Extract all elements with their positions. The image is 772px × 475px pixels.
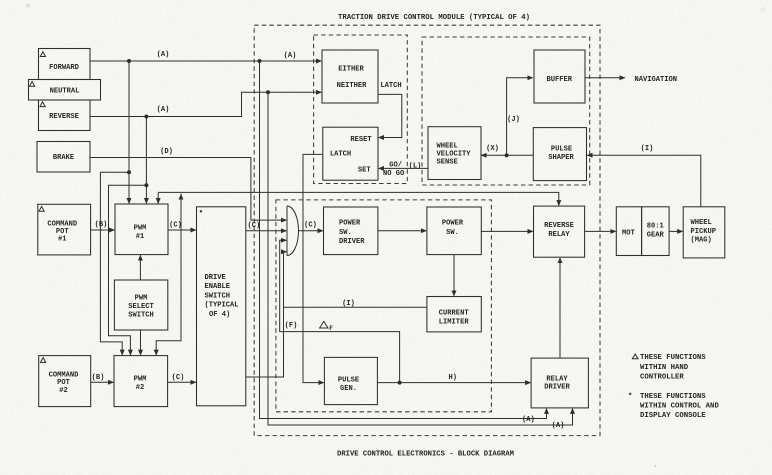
- node reverse bus tap: [144, 115, 148, 119]
- wire PULSE SHAPER (X) to WVS: [481, 145, 533, 155]
- label delta F: [320, 321, 334, 332]
- box 80:1 GEAR: [642, 207, 670, 256]
- dashed box latch section: [314, 35, 408, 184]
- svg-text:(A): (A): [552, 422, 565, 430]
- svg-text:PWM: PWM: [134, 225, 147, 233]
- svg-text:OF 4): OF 4): [209, 311, 230, 319]
- svg-text:SW.: SW.: [339, 229, 352, 237]
- module outer dashed border: [254, 25, 600, 435]
- box PULSE GEN: [324, 357, 377, 404]
- wire REVERSE (A) to NEITHER: [90, 92, 321, 116]
- svg-text:#2: #2: [136, 384, 145, 392]
- node X junction: [505, 153, 509, 157]
- dashed box power section: [276, 200, 492, 412]
- box LATCH (RESET/SET): [323, 127, 378, 180]
- svg-text:NAVIGATION: NAVIGATION: [635, 76, 678, 84]
- wire PWM1 (C) to DRIVE ENABLE: [168, 222, 196, 231]
- box WHEEL VELOCITY SENSE: [428, 127, 481, 180]
- node forward-pwm2 tap: [127, 170, 131, 174]
- wire BRAKE (D) to or-gate: [90, 148, 286, 220]
- wire POWER SW down to CURRENT LIMITER: [453, 255, 455, 296]
- box DRIVE ENABLE SWITCH: [197, 207, 246, 406]
- svg-text:RELAY: RELAY: [548, 231, 570, 239]
- svg-text:FORWARD: FORWARD: [49, 64, 79, 72]
- wire latch net branch to PWM2: [156, 194, 181, 355]
- svg-text:LIMITER: LIMITER: [439, 318, 470, 326]
- wire PULSE GEN (H) to RELAY DRIVER: [377, 374, 530, 382]
- svg-text:PWM: PWM: [134, 376, 147, 384]
- svg-text:POWER: POWER: [442, 220, 464, 228]
- svg-text:(J): (J): [507, 116, 520, 124]
- box NEUTRAL: [29, 80, 101, 101]
- svg-text:(I): (I): [641, 145, 654, 153]
- svg-text:WHEEL: WHEEL: [691, 219, 712, 227]
- svg-text:(C): (C): [172, 374, 185, 382]
- or-gate merge symbol: [287, 206, 299, 256]
- svg-text:SELECT: SELECT: [128, 303, 154, 311]
- svg-text:#1: #1: [136, 233, 145, 241]
- svg-text:DRIVE: DRIVE: [205, 274, 226, 282]
- node reverse A-bus tap: [266, 90, 270, 94]
- wire PWM2 (C) to DRIVE ENABLE: [168, 374, 196, 383]
- svg-text:GO/: GO/: [389, 162, 402, 170]
- svg-text:NEUTRAL: NEUTRAL: [50, 88, 80, 96]
- node reverse-pwm2 tap: [144, 183, 148, 187]
- svg-text:(X): (X): [486, 145, 499, 153]
- svg-text:BRAKE: BRAKE: [53, 154, 74, 162]
- svg-text:THESE FUNCTIONS: THESE FUNCTIONS: [640, 354, 706, 362]
- wire RELAY DRIVER up to REVERSE RELAY: [559, 258, 561, 358]
- box PWM #1: [115, 204, 168, 255]
- box PWM SELECT SWITCH: [114, 280, 167, 330]
- box POWER SW: [427, 207, 481, 255]
- svg-text:WITHIN CONTROL AND: WITHIN CONTROL AND: [640, 403, 719, 411]
- svg-text:F: F: [329, 325, 333, 332]
- wire DRIVE ENABLE (C) to or-gate: [246, 222, 286, 231]
- svg-text:SHAPER: SHAPER: [548, 154, 574, 162]
- svg-text:NO GO: NO GO: [383, 170, 404, 178]
- scan speck top left: [26, 4, 30, 8]
- box WHEEL PICKUP (MAG): [683, 207, 725, 258]
- svg-text:EITHER: EITHER: [338, 66, 364, 74]
- box COMMAND POT #2: [39, 356, 91, 407]
- svg-text:*: *: [628, 393, 632, 401]
- svg-text:(TYPICAL: (TYPICAL: [205, 302, 239, 310]
- svg-text:RELAY: RELAY: [546, 375, 568, 383]
- svg-text:PICKUP: PICKUP: [691, 228, 717, 236]
- svg-text:THESE FUNCTIONS: THESE FUNCTIONS: [640, 393, 706, 401]
- svg-text:NEITHER: NEITHER: [337, 82, 368, 90]
- svg-text:(F): (F): [285, 322, 298, 330]
- box PWM #2: [114, 356, 168, 407]
- box BUFFER: [534, 50, 585, 103]
- svg-text:#2: #2: [59, 387, 68, 395]
- node forward A-bus tap: [258, 59, 262, 63]
- scan speck top right: [761, 7, 766, 12]
- svg-text:CONTROLLER: CONTROLLER: [640, 374, 684, 382]
- svg-text:DRIVER: DRIVER: [339, 238, 365, 246]
- wire reverse branch to PWM2: [109, 185, 147, 354]
- wire CURRENT LIMITER (I) line: [284, 300, 427, 308]
- svg-text:VELOCITY: VELOCITY: [437, 150, 472, 158]
- svg-text:DRIVER: DRIVER: [544, 384, 570, 392]
- svg-text:(A): (A): [157, 51, 170, 59]
- wire POWER SW DRIVER to POWER SW: [378, 230, 426, 232]
- wire DRIVE ENABLE lower output to or-gate: [246, 252, 286, 377]
- node latch net up arrow: [180, 194, 182, 199]
- svg-text:GEAR: GEAR: [647, 232, 665, 240]
- svg-text:POWER: POWER: [339, 220, 361, 228]
- wire latch net into PWM1 top: [157, 192, 159, 203]
- svg-text:(C): (C): [169, 222, 182, 230]
- svg-text:80:1: 80:1: [647, 223, 664, 231]
- box FORWARD: [39, 49, 91, 80]
- svg-text:DISPLAY CONSOLE: DISPLAY CONSOLE: [640, 412, 706, 420]
- svg-text:ENABLE: ENABLE: [205, 283, 231, 291]
- svg-text:(I): (I): [342, 300, 355, 308]
- svg-text:(A): (A): [522, 416, 535, 424]
- wire BUFFER to NAVIGATION: [585, 76, 677, 84]
- box EITHER NEITHER: [322, 50, 378, 103]
- legend display console: [628, 393, 719, 420]
- wire COMMAND POT1 (B) to PWM1: [90, 221, 114, 230]
- svg-text:TRACTION DRIVE CONTROL MODULE: TRACTION DRIVE CONTROL MODULE (TYPICAL O…: [338, 14, 530, 22]
- box REVERSE RELAY: [534, 206, 585, 257]
- wire COMMAND POT2 (B) to PWM2: [91, 374, 114, 383]
- wire pulse gen (F) feedback to or-gate: [280, 240, 400, 382]
- wire EITHER latch feedback to RESET: [378, 82, 402, 138]
- svg-text:DRIVE CONTROL ELECTRONICS - BL: DRIVE CONTROL ELECTRONICS - BLOCK DIAGRA…: [337, 450, 515, 458]
- box RELAY DRIVER: [531, 358, 588, 408]
- svg-text:SENSE: SENSE: [437, 159, 458, 167]
- box CURRENT LIMITER: [427, 297, 481, 332]
- svg-text:PULSE: PULSE: [338, 377, 359, 385]
- svg-text:PWM: PWM: [135, 295, 148, 303]
- wire LATCH output to PULSE GEN: [303, 154, 324, 382]
- wire forward bus down to PWM1: [128, 61, 130, 203]
- box MOT: [616, 207, 641, 256]
- wire WVS GO/NO GO (L) to LATCH SET: [379, 162, 428, 179]
- svg-text:#1: #1: [58, 236, 67, 244]
- svg-text:SWITCH: SWITCH: [205, 292, 231, 300]
- svg-text:(B): (B): [95, 221, 108, 229]
- box COMMAND POT #1: [38, 204, 91, 255]
- scan speck bottom: [654, 465, 656, 467]
- svg-text:H): H): [449, 374, 458, 382]
- svg-text:(A): (A): [157, 106, 170, 114]
- wire (J) up to BUFFER: [507, 78, 533, 156]
- wire WHEEL PICKUP (I) feedback to PULSE SHAPER: [587, 145, 701, 207]
- node forward bus tap: [127, 59, 131, 63]
- legend hand controller: [632, 354, 706, 382]
- dashed box velocity section: [422, 37, 590, 185]
- svg-text:LATCH: LATCH: [380, 82, 401, 90]
- wire or-gate (C) output to POWER SW DRIVER: [298, 221, 322, 230]
- svg-text:REVERSE: REVERSE: [544, 222, 574, 230]
- svg-text:WITHIN HAND: WITHIN HAND: [640, 364, 689, 372]
- node pulse gen output tap: [398, 381, 402, 385]
- box BRAKE: [37, 142, 90, 173]
- wire REVERSE RELAY to MOT: [585, 230, 616, 232]
- wire FORWARD (A) to EITHER: [90, 51, 321, 61]
- wire GEAR to WHEEL PICKUP: [669, 230, 682, 232]
- wire reverse bus down to PWM1: [145, 117, 147, 204]
- svg-text:(D): (D): [160, 148, 173, 156]
- svg-text:(L): (L): [409, 162, 422, 170]
- svg-text:RESET: RESET: [350, 136, 372, 144]
- box POWER SW DRIVER: [324, 207, 378, 255]
- svg-text:SW.: SW.: [446, 229, 459, 237]
- svg-text:GEN.: GEN.: [340, 385, 357, 393]
- svg-text:SWITCH: SWITCH: [128, 312, 154, 320]
- box REVERSE: [39, 100, 91, 131]
- svg-text:BUFFER: BUFFER: [547, 76, 573, 84]
- wire PWM SELECT up to PWM1: [139, 255, 141, 280]
- wire latch net to REVERSE RELAY top: [158, 192, 559, 205]
- wire PWM SELECT down to PWM2: [140, 330, 142, 355]
- wire forward branch to PWM2: [100, 172, 129, 355]
- svg-text:WHEEL: WHEEL: [437, 142, 458, 150]
- svg-text:(MAG): (MAG): [691, 236, 712, 244]
- wire POWER SW to REVERSE RELAY: [481, 230, 532, 232]
- box PULSE SHAPER: [533, 128, 586, 181]
- svg-text:(C): (C): [248, 222, 261, 230]
- svg-text:REVERSE: REVERSE: [49, 113, 79, 121]
- svg-text:(A): (A): [284, 52, 297, 60]
- svg-text:LATCH: LATCH: [330, 151, 351, 159]
- wire A-bus1 to RELAY DRIVER: [260, 61, 547, 424]
- svg-text:(B): (B): [92, 374, 105, 382]
- svg-text:(C): (C): [304, 221, 317, 229]
- wire A-bus2 to RELAY DRIVER: [268, 92, 573, 430]
- svg-text:MOT: MOT: [622, 229, 636, 237]
- svg-text:CURRENT: CURRENT: [439, 309, 470, 317]
- svg-text:SET: SET: [358, 167, 372, 175]
- svg-text:PULSE: PULSE: [551, 145, 572, 153]
